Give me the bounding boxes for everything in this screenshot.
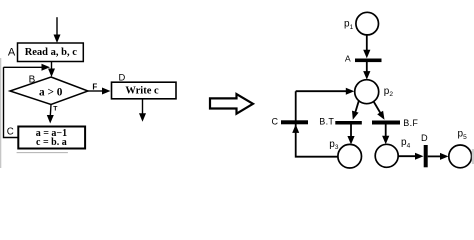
arc p2 to B.T: [352, 101, 359, 120]
transition D: [424, 145, 428, 167]
arc D to p5: [428, 153, 449, 160]
arc p2 to B.F: [374, 102, 385, 120]
loop wire p3 to C: [296, 91, 338, 157]
svg-text:c = b. a: c = b. a: [36, 137, 67, 148]
big hollow arrow: [210, 94, 253, 114]
process box C (a = a-1 ; c = b . a): [18, 127, 85, 149]
process box A (Read a, b, c): [18, 43, 84, 62]
arc A to p2: [363, 62, 370, 80]
place p4: [375, 144, 398, 167]
arrowhead p3 to C: [292, 124, 299, 132]
junction arrow from loop: [4, 64, 51, 71]
scan artifact right edge: [472, 149, 474, 164]
wire box A to junction to diamond B: [48, 62, 55, 78]
arc B.F to p4: [382, 125, 389, 145]
place p2: [355, 80, 379, 104]
svg-text:B.T: B.T: [319, 117, 334, 127]
transition C: [281, 120, 308, 124]
loop wire from box C back up: [4, 67, 19, 137]
arc p1 to A: [363, 35, 370, 58]
arc C to p2 (loop top): [296, 88, 355, 95]
svg-text:A: A: [8, 47, 16, 59]
svg-text:B.F: B.F: [403, 118, 418, 128]
svg-text:B: B: [29, 74, 36, 85]
process box D (Write c): [112, 82, 177, 99]
svg-text:C: C: [272, 116, 279, 126]
decision diamond B (a > 0): [10, 77, 88, 105]
arc B.T to p3: [347, 125, 354, 145]
start arrow into box A: [54, 17, 61, 43]
transition A: [355, 59, 382, 63]
svg-text:Read a, b, c: Read a, b, c: [25, 47, 78, 58]
exit arrow from box D: [139, 99, 146, 122]
svg-text:C: C: [7, 126, 14, 137]
svg-text:Write c: Write c: [125, 85, 159, 96]
place p1: [356, 12, 379, 35]
place p5: [449, 145, 472, 168]
svg-text:F: F: [92, 82, 97, 91]
scan artifact gray line under box C: [17, 152, 68, 154]
svg-text:D: D: [421, 133, 428, 143]
wire diamond to box C: [47, 105, 54, 124]
place p3: [338, 144, 362, 168]
svg-text:D: D: [119, 72, 126, 83]
wire diamond to box D: [88, 88, 111, 95]
transition B.F: [372, 121, 400, 125]
transition B.T: [335, 121, 362, 125]
svg-text:a > 0: a > 0: [39, 87, 63, 99]
scan artifact left edge: [0, 58, 1, 168]
arc p4 to D: [398, 153, 423, 160]
svg-text:A: A: [345, 54, 351, 64]
